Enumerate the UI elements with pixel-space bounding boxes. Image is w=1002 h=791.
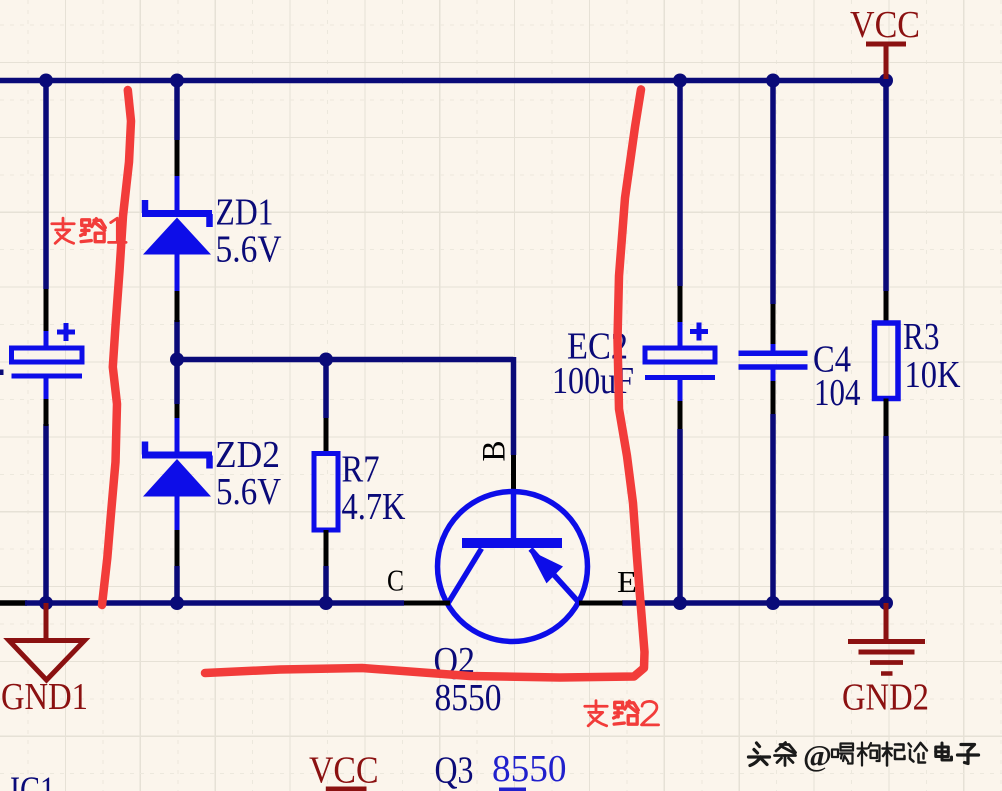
svg-text:GND2: GND2 [842,677,929,719]
annotation text zhi-lu-2 (branch 2) in red [585,701,659,726]
junction top rail / VCC,R3 [879,74,893,88]
svg-text:R3: R3 [903,316,940,358]
label C4 [813,339,851,381]
svg-text:10K: 10K [905,354,961,396]
ground symbol GND1 [9,603,85,680]
junction top rail / EC1 [39,74,53,88]
label C4 value 104 [814,372,861,414]
power symbol VCC (top) [866,44,906,79]
svg-text:VCC: VCC [309,750,379,791]
label ZD2 [215,434,280,476]
wire EC2 branch vertical [677,81,683,604]
resistor R7 [314,418,338,566]
wire C4 branch vertical [770,81,776,604]
label R7 [342,449,380,491]
annotation hand-drawn red line branch 2 (zhi lu 2) [205,89,645,677]
pin label C (collector) [387,563,404,598]
svg-text:C: C [387,563,404,598]
capacitor EC2 polarized 100uF [645,286,715,429]
label EC1 value (cut off at left edge) [0,370,4,376]
label Q3 value 8550 [492,748,567,790]
label ZD1 value 5.6V [216,229,282,271]
junction bottom rail / EC1,GND1 [39,596,53,610]
power symbol VCC (bottom, cut off) [326,787,367,791]
label ZD1 [216,192,274,234]
junction bottom rail / R3,GND2 [879,596,893,610]
wire R7 branch vertical [323,360,329,604]
svg-text:4.7K: 4.7K [342,486,406,528]
pin label B (base, rotated) [477,441,513,462]
svg-text:5.6V: 5.6V [216,471,281,513]
wire R3 branch vertical [883,81,889,604]
pin label E (emitter) [617,564,637,599]
ground symbol GND2 (earth) [848,603,925,674]
label R7 value 4.7K [342,486,406,528]
wire VCC top rail [0,78,891,84]
wire bottom rail (ground rail) [0,600,886,606]
svg-text:104: 104 [814,372,861,414]
label R3 [903,316,940,358]
label VCC (top) [850,4,920,46]
svg-text:IC1: IC1 [10,770,55,791]
junction bottom rail / ZD2 [170,596,184,610]
svg-text:ZD1: ZD1 [216,192,274,234]
svg-text:ZD2: ZD2 [215,434,280,476]
wire ZD1 branch vertical [174,81,180,360]
svg-text:5.6V: 5.6V [216,229,282,271]
label ZD2 value 5.6V [216,471,281,513]
svg-text:8550: 8550 [435,677,502,719]
annotation text zhi-lu-1 (branch 1) in red [52,218,126,243]
junction top rail / ZD1 [170,74,184,88]
capacitor C4 104 [739,304,808,414]
svg-text:B: B [477,441,513,462]
junction bottom rail / EC2 [673,596,687,610]
watermark toutiao @he-gou-qi-lun-dian-zi [749,738,979,773]
wire left branch EC1 vertical [43,81,49,604]
label R3 value 10K [905,354,961,396]
label Q3 [435,750,474,791]
wire ZD2 branch vertical [174,360,180,604]
svg-text:GND1: GND1 [1,676,88,718]
capacitor EC1 polarized (left edge) [12,289,83,426]
junction top rail / EC2 [673,74,687,88]
svg-text:VCC: VCC [850,4,920,46]
svg-text:R7: R7 [342,449,380,491]
label IC1 (cut off at bottom) [10,770,55,791]
junction bottom rail / C4 [766,596,780,610]
label Q2 value 8550 [435,677,502,719]
label EC2 value 100uF [552,360,634,402]
svg-text:Q3: Q3 [435,750,474,791]
junction bottom rail / R7 [319,596,333,610]
junction middle rail / ZD1-ZD2 [170,353,184,367]
label EC2 [567,326,628,368]
label GND1 [1,676,88,718]
svg-text:8550: 8550 [492,748,567,790]
junction top rail / C4 [766,74,780,88]
junction middle rail / R7 [319,353,333,367]
label GND2 [842,677,929,719]
transistor Q3 symbol (cut off at bottom) [499,788,526,791]
annotation hand-drawn red line branch 1 (zhi lu 1) [102,90,131,605]
zener diode ZD1 [142,140,212,322]
transistor Q2 PNP 8550 [404,455,623,642]
label VCC (bottom) [309,750,379,791]
label Q2 [434,640,476,682]
svg-text:@: @ [803,738,832,773]
zener diode ZD2 [142,404,212,566]
wire middle rail from ZD1 cathode to Q2 base corner [177,357,514,455]
resistor R3 [875,291,899,436]
